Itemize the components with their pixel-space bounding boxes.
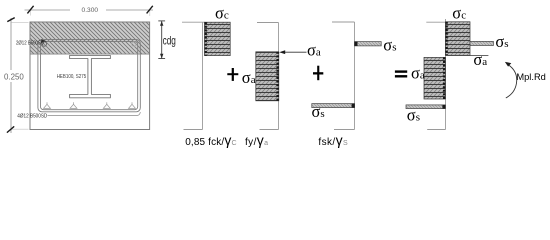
svg-text:HEB100, S275: HEB100, S275 bbox=[57, 74, 86, 80]
svg-text:σa: σa bbox=[307, 41, 321, 60]
arrow sigma_a D2 bbox=[284, 51, 307, 53]
dimension 0.250 (left) bbox=[11, 18, 29, 133]
top line D2 bbox=[257, 22, 279, 24]
top rebar right bbox=[132, 42, 136, 46]
plus sign 1 bbox=[227, 68, 238, 81]
svg-text:fy/γa: fy/γa bbox=[245, 132, 268, 148]
top rebar strip D4 bbox=[470, 41, 493, 45]
bottom line D2 bbox=[260, 129, 279, 131]
concrete block D4 bbox=[446, 22, 471, 56]
dimension cdg (right) bbox=[158, 21, 165, 59]
plus sign 2 bbox=[313, 66, 323, 81]
svg-text:σa: σa bbox=[411, 64, 425, 83]
axis D1 bbox=[202, 22, 204, 129]
bottom rebar symbol 1 bbox=[44, 102, 136, 108]
svg-text:Mpl.Rd: Mpl.Rd bbox=[516, 72, 545, 82]
svg-text:σc: σc bbox=[452, 4, 466, 23]
bottom rebar symbol 3 bbox=[103, 104, 110, 108]
axis D4 bbox=[445, 19, 447, 130]
svg-text:cdg: cdg bbox=[163, 34, 176, 48]
svg-text:σa: σa bbox=[473, 50, 487, 69]
svg-text:0,85 fck/γC: 0,85 fck/γC bbox=[185, 132, 237, 148]
bottom rebar strip D4 bbox=[406, 105, 445, 109]
top rebar left (with leader arrow) bbox=[41, 39, 47, 43]
concrete section outline bbox=[30, 22, 150, 130]
axis D2 bbox=[278, 23, 280, 130]
svg-text:σc: σc bbox=[215, 4, 229, 23]
leader line bottom rebars bbox=[48, 112, 141, 115]
dimension 0.300 (top) bbox=[25, 10, 154, 16]
svg-text:σa: σa bbox=[242, 68, 256, 87]
svg-text:fsk/γS: fsk/γS bbox=[318, 132, 348, 148]
equals sign bbox=[395, 70, 407, 77]
bottom line D3 bbox=[334, 129, 355, 131]
steel block left D4 bbox=[424, 57, 445, 99]
top rebar strip D3 bbox=[355, 42, 382, 46]
PNA / hatch bottom line bbox=[30, 53, 150, 55]
steel profile HEB100 bbox=[70, 55, 111, 97]
top line D4 bbox=[426, 21, 445, 23]
axis D3 bbox=[354, 22, 356, 130]
moment arrow Mpl.Rd bbox=[506, 64, 517, 98]
concrete stress block D1 bbox=[205, 22, 231, 55]
svg-text:0.250: 0.250 bbox=[4, 71, 24, 81]
top line D3 bbox=[332, 21, 355, 23]
svg-text:σs: σs bbox=[383, 36, 396, 55]
line under concrete block D4 bbox=[446, 54, 489, 56]
svg-text:4Ø12 B500SD: 4Ø12 B500SD bbox=[17, 113, 47, 119]
svg-text:0.300: 0.300 bbox=[82, 7, 99, 14]
svg-text:2Ø12 B500SD: 2Ø12 B500SD bbox=[16, 40, 44, 46]
svg-text:σs: σs bbox=[495, 32, 508, 51]
concrete compression hatch band bbox=[30, 22, 150, 54]
bottom line D4 bbox=[427, 129, 445, 131]
bottom rebar symbol 2 bbox=[70, 104, 77, 108]
bottom rebar symbol 4 bbox=[129, 104, 136, 108]
steel stress block D2 bbox=[256, 52, 279, 101]
top line D1 bbox=[182, 21, 205, 23]
bottom line D1 bbox=[184, 129, 203, 131]
bottom rebar strip D3 bbox=[312, 104, 355, 108]
stirrup inner line bbox=[41, 42, 138, 110]
stirrup outer line bbox=[38, 40, 140, 112]
